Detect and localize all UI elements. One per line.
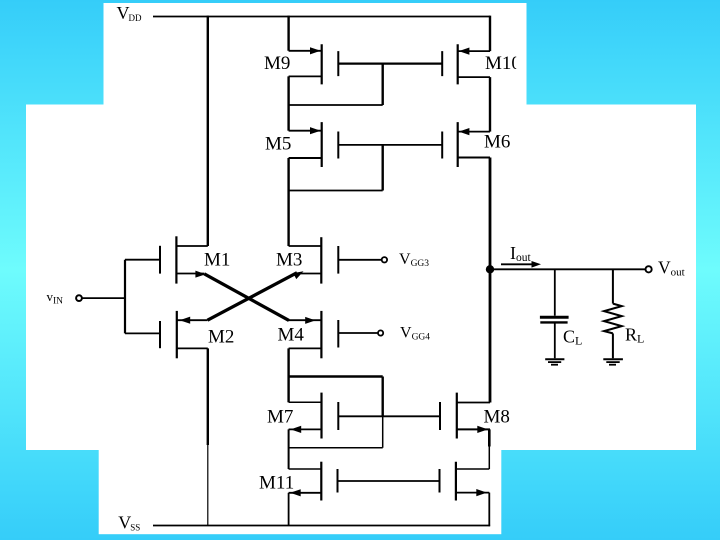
wire M8 source rail thin to M12 drain: [488, 447, 490, 470]
svg-text:M2: M2: [208, 327, 234, 348]
transistor M7: [289, 393, 339, 439]
wire cross-couple M1 source to M4 source: [204, 274, 289, 321]
terminal Vout: [646, 266, 652, 272]
wire output to Vout: [490, 268, 646, 270]
Iout current arrow: [501, 261, 541, 268]
wire gate link M9-M10: [338, 62, 442, 64]
label M10 (clipped by picture edge): [485, 53, 521, 74]
svg-text:M5: M5: [265, 134, 291, 155]
svg-text:M4: M4: [278, 324, 305, 345]
ground under CL: [545, 359, 564, 365]
terminal VGG4: [378, 330, 383, 335]
svg-text:M9: M9: [264, 53, 290, 74]
transistor M4: [288, 311, 338, 358]
wire M2 drain rail to VSS: [207, 348, 209, 525]
wire gate link M7-M8: [338, 415, 440, 417]
transistor M3: [289, 237, 339, 283]
transistor M8: [440, 393, 490, 439]
white panel middle: [26, 105, 696, 451]
resistor RL: [604, 269, 622, 358]
transistor M11: [289, 462, 338, 501]
wire M12 source corner to VSS: [488, 493, 490, 527]
svg-text:M11: M11: [259, 473, 294, 494]
svg-text:M3: M3: [276, 249, 302, 270]
svg-text:M8: M8: [484, 406, 510, 427]
wire M7 gate riser upper: [382, 377, 384, 417]
wire M1 drain riser to VDD: [207, 16, 209, 246]
transistor M2: [125, 311, 208, 358]
wire M7 source to M11 drain: [288, 429, 290, 469]
wire vIN lead: [82, 297, 125, 299]
wire M7 gate riser lower: [382, 416, 384, 448]
wire M5 gate-drain loop: [289, 145, 383, 246]
wire M10 source riser to VDD: [489, 16, 491, 52]
transistor M12: [440, 462, 490, 501]
svg-text:M1: M1: [204, 249, 230, 270]
wire M8 source rail thick: [488, 429, 491, 446]
wire M4 gate lead: [338, 332, 378, 334]
svg-text:M10: M10: [485, 53, 521, 74]
transistor M1: [125, 236, 208, 283]
wire M9 source riser to VDD: [287, 16, 289, 51]
wire M11 source to VSS: [288, 493, 290, 526]
wire VSS rail: [153, 525, 490, 527]
transistor M9: [289, 44, 339, 84]
svg-text:M6: M6: [484, 132, 510, 153]
wire cross-couple M2 source to M3 source: [208, 273, 298, 321]
wire input gate rail: [124, 260, 126, 334]
terminal VGG3: [382, 257, 387, 262]
svg-text:M7: M7: [267, 406, 293, 427]
transistor M10: [442, 44, 490, 84]
capacitor CL: [540, 269, 569, 358]
wire M9 gate-drain loop: [289, 64, 383, 131]
wire M3 gate lead: [338, 259, 381, 261]
wire M7 gate node line: [289, 375, 383, 377]
node output junction: [486, 265, 494, 273]
wire output rail M6 drain to M8 drain: [489, 158, 492, 403]
wire gate link M11-M12: [338, 480, 440, 482]
wire M11 drain node line: [289, 447, 383, 449]
transistor M6: [442, 122, 490, 167]
white panel top: [104, 3, 527, 110]
wire M4 drain rail down: [287, 348, 289, 402]
transistor M5: [289, 122, 339, 167]
white panel bottom: [99, 444, 502, 534]
wire M10 drain to M6 source: [489, 77, 491, 132]
wire VDD rail: [153, 16, 490, 18]
ground under RL: [603, 359, 623, 365]
terminal vIN: [76, 295, 82, 301]
wire gate link M5-M6: [338, 144, 442, 146]
